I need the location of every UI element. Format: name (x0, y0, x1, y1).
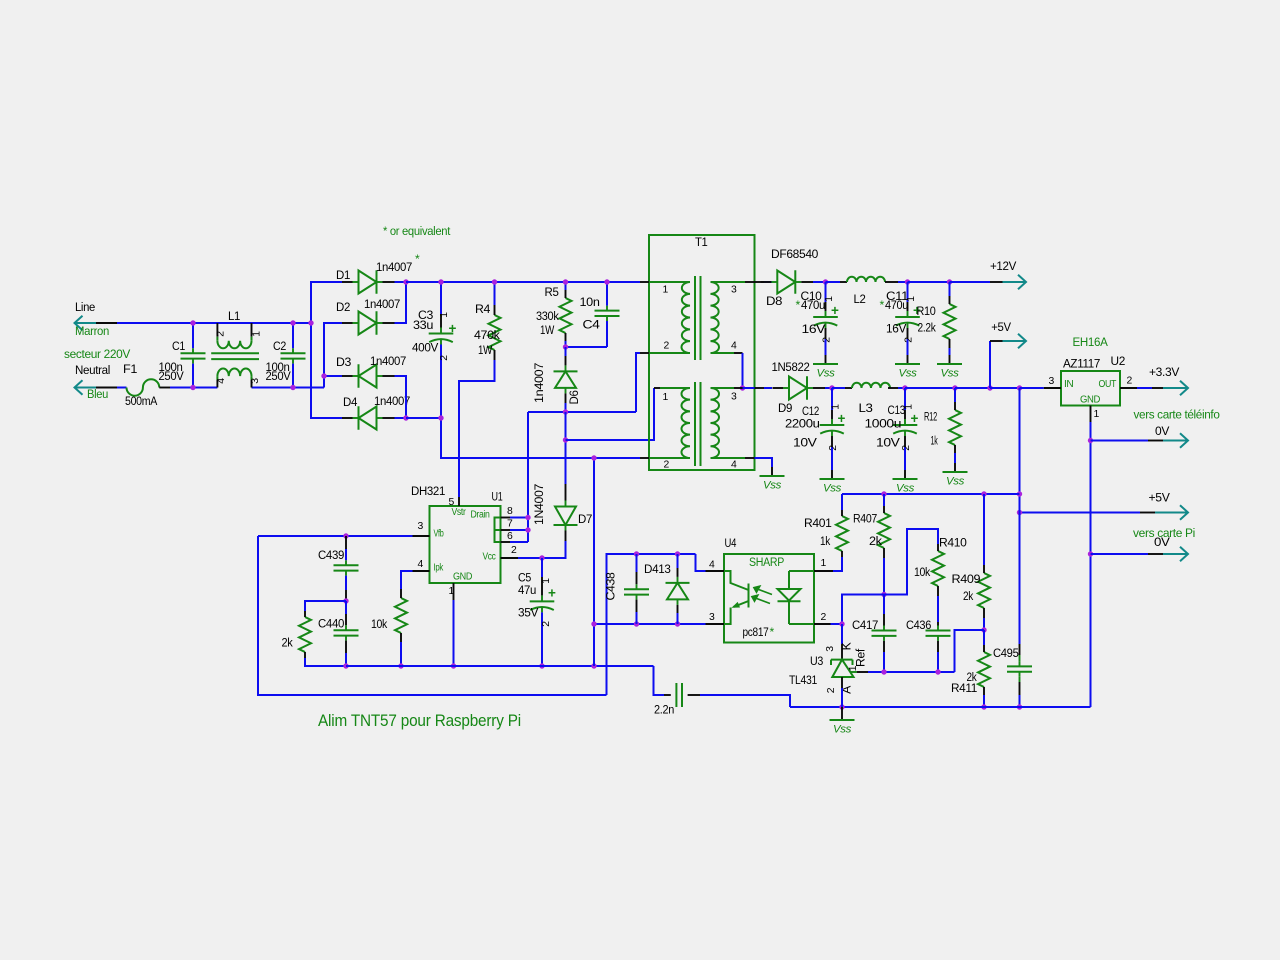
svg-text:1: 1 (663, 392, 669, 403)
svg-text:1: 1 (824, 296, 835, 302)
wire U2 GND down to secondary ground (1090, 422, 1092, 707)
junction C3 HV- tap (438, 415, 443, 420)
svg-text:D2: D2 (336, 300, 351, 314)
svg-text:35V: 35V (518, 606, 539, 620)
svg-text:T1: T1 (695, 235, 708, 249)
svg-text:1: 1 (904, 404, 915, 410)
pin 4 Ipk lead (413, 570, 430, 572)
junction 0V Pi tap (1088, 551, 1093, 556)
resistor R12 (949, 410, 961, 445)
svg-text:4: 4 (418, 559, 424, 570)
svg-text:+12V: +12V (990, 259, 1017, 273)
svg-text:D1: D1 (336, 268, 351, 282)
capacitor C440 (334, 629, 359, 631)
ground Vss C10 (825, 355, 827, 364)
node Neutral input arrow (75, 380, 97, 395)
svg-text:2200u: 2200u (785, 417, 820, 431)
svg-text:R407: R407 (853, 512, 877, 526)
inductor L1 common-mode choke (216, 323, 218, 337)
svg-text:Vss: Vss (946, 476, 965, 488)
wire pin8 to drain bus (510, 517, 528, 519)
diode D9 1N5822 (789, 376, 807, 399)
junction GND pin on rail (451, 663, 456, 668)
TL431 ref lead (850, 671, 857, 673)
wire 0V teleinfo (1091, 440, 1149, 442)
transformer T1 box (649, 235, 755, 470)
svg-text:Vss: Vss (763, 480, 782, 492)
svg-text:+5V: +5V (1149, 491, 1171, 505)
svg-text:250V: 250V (159, 369, 185, 383)
inductor L3 (852, 383, 890, 388)
svg-text:R409: R409 (952, 572, 981, 586)
junction C3 top (438, 279, 443, 284)
resistor R10 (944, 304, 956, 339)
wire +5V arrow riser (989, 341, 991, 388)
junction C2 bottom (290, 385, 295, 390)
resistor R409 (978, 573, 990, 608)
wire 10k bottom to GND rail (400, 642, 402, 666)
junction C438 bottom (634, 621, 639, 626)
capacitor C1 (181, 352, 206, 354)
wire node to 2k (305, 601, 346, 611)
junction C440 bottom (343, 663, 348, 668)
junction R5/C4/D6 node (563, 344, 568, 349)
wire K node to TL431 (841, 624, 843, 644)
capacitor 2.2n (664, 694, 671, 696)
node +5V output arrow (1155, 505, 1188, 520)
svg-text:400V: 400V (412, 341, 439, 355)
svg-text:3: 3 (825, 646, 836, 652)
resistor R5 (560, 298, 572, 333)
junction C5 bottom (539, 663, 544, 668)
wire D1/D2 cathodes to + node (395, 282, 407, 323)
junction +5V arrow riser (987, 385, 992, 390)
wire R12 to +5V riser (955, 387, 990, 389)
wire +5V sense drop (1019, 388, 1021, 513)
svg-text:2: 2 (511, 545, 517, 556)
op-amp U2 AZ1117 body (1061, 371, 1120, 406)
pin 4 T1 upper (734, 352, 743, 354)
node Line input (secteur) arrow (75, 316, 97, 331)
wire R5 bottom node (565, 333, 567, 341)
svg-text:2: 2 (439, 355, 450, 361)
svg-text:DF68540: DF68540 (771, 247, 819, 261)
wire DH321 GND pin down (453, 600, 455, 666)
svg-text:vers carte téléinfo: vers carte téléinfo (1134, 408, 1221, 422)
svg-text:TL431: TL431 (789, 673, 817, 687)
wire drain to DH321 pins (527, 412, 529, 542)
opto internal phototransistor (724, 571, 749, 624)
junction R409/R411 node (981, 627, 986, 632)
svg-text:R12: R12 (924, 410, 937, 424)
diode D6 (554, 371, 578, 388)
svg-text:1: 1 (1094, 409, 1100, 420)
wire C11 to R10 (908, 281, 950, 283)
wire T1 lower pin4 to Vss (755, 458, 773, 467)
svg-text:Vss: Vss (940, 368, 959, 380)
svg-text:Vss: Vss (833, 724, 852, 736)
svg-text:3: 3 (731, 285, 737, 296)
wire C12 to L3 (832, 387, 845, 389)
junction bridge - node (403, 415, 408, 420)
junction C11 top (905, 279, 910, 284)
wire D3 to B (324, 375, 342, 377)
svg-text:C495: C495 (993, 646, 1019, 660)
junction x594 on HV- rail (591, 455, 596, 460)
svg-text:3: 3 (1049, 376, 1055, 387)
pin 2 U2 lead (1120, 387, 1137, 389)
wire R407 bottom node (883, 558, 885, 595)
ground Vss C13 (904, 470, 906, 479)
wire +5V rail to U2 IN (1020, 387, 1044, 389)
wire Vfb to feedback loop (258, 535, 413, 537)
junction TL431 anode on rail (839, 704, 844, 709)
svg-text:1k: 1k (931, 434, 939, 448)
svg-text:R10: R10 (917, 304, 937, 318)
svg-text:2: 2 (216, 331, 227, 337)
junction C1 bottom (190, 385, 195, 390)
svg-text:R4: R4 (475, 302, 491, 316)
junction C13 top (902, 385, 907, 390)
op-amp U4 PC817 body (724, 554, 814, 643)
svg-text:1n4007: 1n4007 (364, 297, 401, 311)
svg-text:Vss: Vss (816, 368, 835, 380)
capacitor C13 (893, 424, 918, 426)
svg-text:10V: 10V (876, 436, 901, 450)
pin 3 U2 lead (1044, 387, 1061, 389)
wire U2 OUT to +3.3V arrow (1137, 387, 1152, 389)
wire C13 to R12 (905, 387, 955, 389)
junction R4 top (492, 279, 497, 284)
wire feedback riser to opto top rail (607, 554, 696, 695)
svg-text:C2: C2 (273, 339, 286, 353)
svg-text:1: 1 (449, 586, 455, 597)
T1 upper core (694, 276, 696, 360)
diode D3 (359, 364, 377, 387)
svg-text:+5V: +5V (991, 320, 1012, 334)
svg-text:R401: R401 (804, 516, 832, 530)
node +5V output arrow upper (1003, 334, 1027, 349)
svg-text:470u: 470u (801, 298, 825, 312)
pin 3 T1 upper (745, 281, 755, 283)
svg-text:secteur 220V: secteur 220V (64, 347, 131, 361)
svg-text:3: 3 (709, 612, 715, 623)
fuse F1 (117, 387, 127, 389)
svg-text:AZ1117: AZ1117 (1063, 357, 1101, 371)
diode D1 (359, 270, 377, 293)
svg-text:2: 2 (826, 687, 837, 693)
pin 3 Vfb lead (413, 535, 430, 537)
svg-text:D413: D413 (644, 562, 671, 576)
wire L3 to C13 (888, 387, 898, 389)
svg-text:C417: C417 (852, 618, 879, 632)
svg-text:D3: D3 (336, 355, 352, 369)
wire primary GND rail (346, 665, 654, 667)
capacitor C417 (872, 630, 897, 632)
ground Vss R10 (949, 355, 951, 364)
capacitor C10 (813, 316, 838, 318)
svg-text:2: 2 (828, 445, 839, 451)
resistor R401 (836, 516, 848, 551)
wire +5V rail to sense tap (990, 387, 1020, 389)
svg-text:GND: GND (1080, 395, 1100, 406)
diode D413 (666, 583, 690, 600)
node 0V teleinfo arrow (1163, 433, 1188, 448)
svg-text:2: 2 (821, 612, 827, 623)
junction x594 on GND rail (591, 663, 596, 668)
wire D8 to C10 node (813, 281, 826, 283)
svg-text:2k: 2k (869, 534, 883, 548)
wire Neutral to L1 pin4 (170, 387, 217, 389)
pin 1 GND lead (453, 583, 455, 600)
junction C417 on ref rail (881, 669, 886, 674)
junction R409 top (981, 491, 986, 496)
svg-text:2: 2 (664, 460, 670, 471)
svg-text:Vstr: Vstr (452, 507, 467, 518)
pin 2 T1 upper (640, 352, 649, 354)
svg-text:C440: C440 (318, 617, 345, 631)
junction 0V teleinfo tap (1088, 438, 1093, 443)
svg-text:U3: U3 (810, 654, 823, 668)
wire drain riser to T1 upper pin2 (636, 353, 640, 412)
svg-text:4: 4 (709, 560, 715, 571)
svg-text:D6: D6 (567, 390, 581, 405)
wire Ref rail (868, 671, 955, 673)
junction Line-A (308, 320, 313, 325)
node +3.3V output arrow (1163, 381, 1188, 396)
svg-text:1: 1 (831, 404, 842, 410)
svg-text:8: 8 (507, 506, 513, 517)
pin 1 T1 lower (654, 387, 660, 389)
svg-text:L1: L1 (228, 309, 241, 323)
svg-text:1N5822: 1N5822 (772, 360, 811, 374)
svg-text:D9: D9 (778, 401, 793, 415)
wire T1 pin3 to D8 (755, 281, 765, 283)
wire 2k bottom to GND rail (305, 658, 346, 666)
svg-text:1N4007: 1N4007 (532, 483, 546, 525)
capacitor C438 (624, 588, 649, 590)
svg-text:D7: D7 (578, 512, 593, 526)
junction R407 top (881, 491, 886, 496)
junction R407/C417 node (881, 592, 886, 597)
svg-text:D8: D8 (766, 294, 783, 308)
T1 lower right winding (711, 388, 720, 458)
junction sense rail tap (1017, 491, 1022, 496)
svg-text:10n: 10n (580, 295, 600, 309)
svg-text:2: 2 (664, 341, 670, 352)
svg-text:U4: U4 (725, 536, 737, 550)
capacitor C5 (530, 600, 555, 602)
svg-text:10k: 10k (371, 617, 388, 631)
pin 2 Vcc lead (501, 557, 519, 559)
resistor R411 (978, 652, 990, 687)
capacitor C2 (281, 352, 306, 354)
svg-text:16V: 16V (802, 322, 827, 336)
svg-text:Marron: Marron (75, 324, 109, 338)
pin 4 T1 lower (745, 457, 755, 459)
wire D3/D4 anodes to - node (395, 376, 407, 418)
transistor U3 TL431 (831, 660, 854, 677)
svg-text:1n4007: 1n4007 (532, 362, 546, 403)
wire T1 upper pin4 down to lower pin3 node (742, 353, 744, 388)
ground Vss C12 (831, 470, 833, 479)
junction C438 top (634, 551, 639, 556)
wire Ipk to 10k (401, 571, 413, 589)
svg-text:Line: Line (75, 300, 96, 314)
capacitor C3 (429, 333, 454, 335)
node +12V output arrow (1003, 275, 1027, 290)
T1 upper left winding (649, 281, 690, 283)
svg-text:Bleu: Bleu (87, 387, 108, 401)
pin 3 T1 lower (734, 387, 743, 389)
wire 2.2n to secondary ground (700, 695, 790, 707)
junction R12 top (952, 385, 957, 390)
pin 4 U4 lead (706, 570, 725, 572)
junction C439/C440/2k node (343, 598, 348, 603)
ground Vss T1 pin4 (771, 467, 773, 476)
T1 lower left winding (660, 387, 690, 389)
svg-text:*: * (415, 252, 420, 266)
junction C12 top (829, 385, 834, 390)
svg-text:2.2n: 2.2n (654, 703, 674, 717)
svg-text:1: 1 (541, 578, 552, 584)
wire opto top rail (607, 553, 696, 555)
svg-text:2: 2 (822, 337, 833, 343)
svg-text:33u: 33u (413, 318, 433, 332)
svg-text:4: 4 (731, 341, 737, 352)
svg-text:+: + (548, 586, 556, 601)
wire bridge bus B (324, 323, 342, 388)
wire +5V output line (1020, 512, 1141, 514)
svg-text:*: * (770, 625, 775, 639)
TL431 anode lead (841, 677, 843, 688)
svg-text:0V: 0V (1154, 535, 1171, 549)
wire node to Ref rail (955, 630, 985, 672)
resistor R410 (932, 551, 944, 586)
svg-text:pc817: pc817 (743, 625, 769, 639)
wire R410 bottom to C436 (937, 596, 939, 622)
pin 3 U4 lead (706, 623, 725, 625)
wire aux to T1 lower pin1 (566, 388, 655, 440)
svg-text:D4: D4 (343, 395, 358, 409)
svg-text:OUT: OUT (1099, 379, 1117, 390)
junction 10k bottom (398, 663, 403, 668)
junction D413 top (675, 551, 680, 556)
svg-text:C4: C4 (583, 318, 601, 332)
wire pin6 to drain bus (510, 541, 528, 543)
capacitor C495 (1007, 665, 1032, 667)
diode D8 DF68540 (777, 270, 795, 293)
diode D2 (359, 311, 377, 334)
junction C495 bottom (1017, 704, 1022, 709)
svg-text:+: + (838, 411, 846, 426)
svg-text:1W: 1W (478, 343, 493, 357)
svg-text:3: 3 (418, 521, 424, 532)
svg-text:Ref: Ref (854, 648, 868, 667)
svg-text:1: 1 (663, 285, 669, 296)
diode D7 (554, 507, 578, 526)
svg-text:*: * (796, 298, 801, 312)
junction sense tap (1017, 385, 1022, 390)
svg-text:Neutral: Neutral (75, 363, 110, 377)
svg-text:10k: 10k (914, 565, 931, 579)
wire Vcc pin to node (518, 557, 542, 559)
svg-text:U1: U1 (492, 490, 503, 504)
junction R5 top (563, 279, 568, 284)
junction C436 on ref rail (935, 669, 940, 674)
wire D9 to C12 (825, 387, 832, 389)
svg-text:Vcc: Vcc (483, 552, 496, 563)
wire R4 bottom to Vstr (494, 350, 496, 360)
svg-text:500mA: 500mA (125, 394, 158, 408)
svg-text:470u: 470u (885, 298, 908, 312)
svg-text:47u: 47u (518, 583, 536, 597)
svg-text:4: 4 (216, 378, 227, 384)
junction opto pin2/K node (839, 621, 844, 626)
wire Line to bridge node A (117, 322, 311, 324)
wire C10 to L2 (826, 281, 841, 283)
wire R409 bottom node (983, 618, 985, 630)
junction C2 top (290, 320, 295, 325)
svg-text:Ipk: Ipk (434, 563, 444, 574)
svg-text:2k: 2k (282, 636, 294, 650)
wire Neutral lead (96, 387, 117, 389)
svg-text:2: 2 (904, 337, 915, 343)
svg-text:3: 3 (250, 378, 261, 384)
svg-text:470k: 470k (474, 328, 501, 342)
drain internal bracket (495, 518, 501, 543)
svg-text:16V: 16V (886, 322, 907, 336)
capacitor C11 (895, 316, 920, 318)
junction C439 top (343, 533, 348, 538)
svg-text:2: 2 (1127, 376, 1133, 387)
ground Vss C11 (907, 355, 909, 364)
svg-text:1n4007: 1n4007 (376, 260, 413, 274)
pins 8 7 6 drain leads (501, 517, 511, 519)
svg-text:R410: R410 (939, 536, 967, 550)
svg-text:Vss: Vss (896, 483, 915, 495)
svg-text:*: * (880, 298, 885, 312)
opto light arrows (752, 586, 772, 603)
wire R401 bottom to opto pin1 (833, 557, 842, 571)
svg-text:1: 1 (848, 665, 859, 671)
svg-text:R411: R411 (951, 681, 978, 695)
svg-text:2: 2 (901, 445, 912, 451)
wire pin7 to drain bus (510, 529, 528, 531)
svg-text:0V: 0V (1155, 424, 1170, 438)
wire node to opto pin2 corner (842, 595, 884, 625)
ground Vss R12 (954, 463, 956, 472)
capacitor C12 (820, 424, 845, 426)
svg-text:1: 1 (439, 312, 450, 318)
svg-text:F1: F1 (123, 362, 138, 376)
junction aux T (563, 437, 568, 442)
svg-text:R5: R5 (545, 285, 560, 299)
svg-text:1W: 1W (540, 323, 555, 337)
wire T1 lower pin3 out (743, 387, 755, 389)
svg-text:K: K (840, 642, 854, 650)
capacitor C436 (926, 630, 951, 632)
resistor R4 (489, 315, 501, 350)
junction drain pin8 (525, 515, 530, 520)
junction +5V out tap (1017, 510, 1022, 515)
wire R10 to +12V arrow (950, 281, 991, 283)
svg-text:Vss: Vss (898, 368, 917, 380)
wire opto bottom rail (594, 623, 706, 625)
junction Vcc node (539, 555, 544, 560)
svg-text:1: 1 (906, 296, 917, 302)
pin 2 T1 lower (640, 457, 649, 459)
